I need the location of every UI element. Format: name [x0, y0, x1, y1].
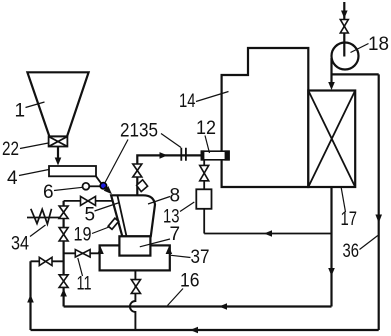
leader line label 1	[26, 102, 45, 108]
label 14	[179, 91, 196, 112]
svg-text:19: 19	[74, 225, 92, 246]
valve on riser	[133, 164, 142, 177]
label 12	[196, 118, 216, 139]
right return line 36	[378, 74, 380, 330]
leader line label 22	[20, 143, 48, 149]
label 13	[163, 207, 180, 228]
chute 5 inner wall	[117, 195, 126, 236]
label 21 and 35	[120, 120, 158, 141]
feeder box 4	[49, 166, 96, 176]
purge line with valve to chute	[64, 200, 113, 202]
leader line label 13	[180, 202, 194, 212]
up arrow right inside 37	[166, 247, 173, 255]
wire vessel-top riser	[137, 155, 201, 194]
leader line label 11	[78, 258, 83, 276]
wire exchanger bottom down	[330, 187, 332, 307]
line 11 to tank 37	[64, 252, 100, 254]
sensor circle 6	[83, 183, 90, 190]
flow element 12	[201, 151, 229, 160]
leader line label 17	[341, 187, 346, 213]
svg-text:14: 14	[179, 91, 196, 112]
heat exchanger 17	[308, 91, 355, 188]
label 4	[7, 168, 18, 189]
leader line label 37	[171, 255, 191, 257]
return wire to 13	[204, 233, 331, 235]
branch line with valve to left drop	[31, 260, 64, 262]
label 19	[74, 225, 92, 246]
arrow right on pipe	[160, 152, 168, 159]
leader line label 16	[168, 289, 184, 306]
label 16	[180, 270, 200, 291]
leader line label 18	[351, 44, 369, 53]
recirculation line 16	[64, 305, 332, 307]
valve upper on left manifold	[59, 206, 68, 219]
wire blower to exchanger with arrow	[330, 58, 332, 83]
node 21 junction (blue dot)	[100, 183, 106, 189]
valve on inlet	[340, 20, 348, 34]
svg-text:11: 11	[77, 274, 92, 295]
svg-text:18: 18	[368, 34, 389, 55]
up arrow on left manifold	[60, 289, 67, 297]
label 18	[368, 34, 389, 55]
leader line label 19	[92, 227, 109, 234]
svg-text:2135: 2135	[120, 120, 158, 141]
leader line label 21 to blue node	[105, 140, 128, 184]
up arrow left inside 37	[97, 247, 104, 255]
feed wire into chute with arrow	[105, 187, 108, 190]
svg-text:16: 16	[180, 270, 200, 291]
svg-text:22: 22	[2, 139, 19, 160]
wire blower to right header	[332, 73, 379, 75]
svg-text:13: 13	[163, 207, 180, 228]
svg-text:17: 17	[341, 209, 358, 230]
valve below 12	[200, 165, 209, 180]
label 36	[343, 241, 360, 262]
valve on branch	[39, 257, 52, 265]
valve on purge line	[81, 196, 96, 205]
valve below 37	[131, 280, 140, 294]
svg-text:34: 34	[11, 234, 29, 255]
sieve 34 zigzag	[31, 209, 52, 224]
discharge box 7	[119, 236, 150, 255]
blower 18	[332, 43, 359, 70]
coupling 35 on pipe	[181, 148, 186, 161]
svg-text:8: 8	[170, 185, 181, 206]
collection tank 37	[100, 245, 170, 270]
trap box 13	[196, 189, 211, 209]
wire hopper to feeder with arrow	[57, 147, 59, 159]
leader line label 4	[19, 170, 49, 176]
svg-text:12: 12	[196, 118, 216, 139]
wire 13 down to return line	[203, 209, 205, 234]
leader line label 8	[148, 197, 170, 205]
svg-text:36: 36	[343, 241, 360, 262]
svg-text:5: 5	[85, 205, 96, 226]
wire 12 down to 13	[203, 160, 205, 190]
label 1	[15, 101, 26, 122]
leader line label 14	[196, 92, 229, 102]
label 17	[341, 209, 358, 230]
label 11	[77, 274, 92, 295]
left drop wire with up arrow	[29, 261, 31, 330]
label 34	[11, 234, 29, 255]
svg-text:6: 6	[43, 182, 54, 203]
left manifold vertical	[62, 201, 64, 307]
leader line label 34	[30, 225, 46, 237]
hopper funnel 1	[27, 72, 88, 136]
svg-text:1: 1	[15, 101, 26, 122]
inlet wire top with arrow	[343, 2, 345, 56]
leader line label 7	[140, 239, 170, 247]
leader line label 35 to coupling	[161, 134, 181, 148]
valve second on left manifold	[59, 228, 68, 241]
leader line label 36	[360, 236, 378, 250]
chamber 14 outline	[222, 48, 309, 187]
valve 22 (box with X)	[49, 137, 68, 147]
label 37	[191, 247, 210, 268]
valve 11	[75, 250, 90, 258]
svg-text:37: 37	[191, 247, 210, 268]
label 5	[85, 205, 96, 226]
label 8	[170, 185, 181, 206]
retort vessel 8	[111, 195, 155, 236]
valve lower on left manifold	[59, 275, 68, 288]
wire feeder to junction	[96, 176, 102, 184]
leader line label 5	[95, 203, 120, 212]
wire circle 6 to junction	[89, 185, 100, 187]
leader line label 12	[205, 136, 210, 154]
leader line label 6	[54, 187, 83, 190]
bottom return line	[31, 329, 379, 331]
nozzle 19 on vessel wall	[108, 218, 119, 229]
sampling diamond on riser	[137, 180, 148, 192]
wire tank 37 down with valve and hop	[130, 270, 136, 330]
svg-text:4: 4	[7, 168, 18, 189]
label 6	[43, 182, 54, 203]
label 7	[170, 224, 181, 245]
vent line with sieve 34	[27, 217, 64, 219]
label 22	[2, 139, 19, 160]
